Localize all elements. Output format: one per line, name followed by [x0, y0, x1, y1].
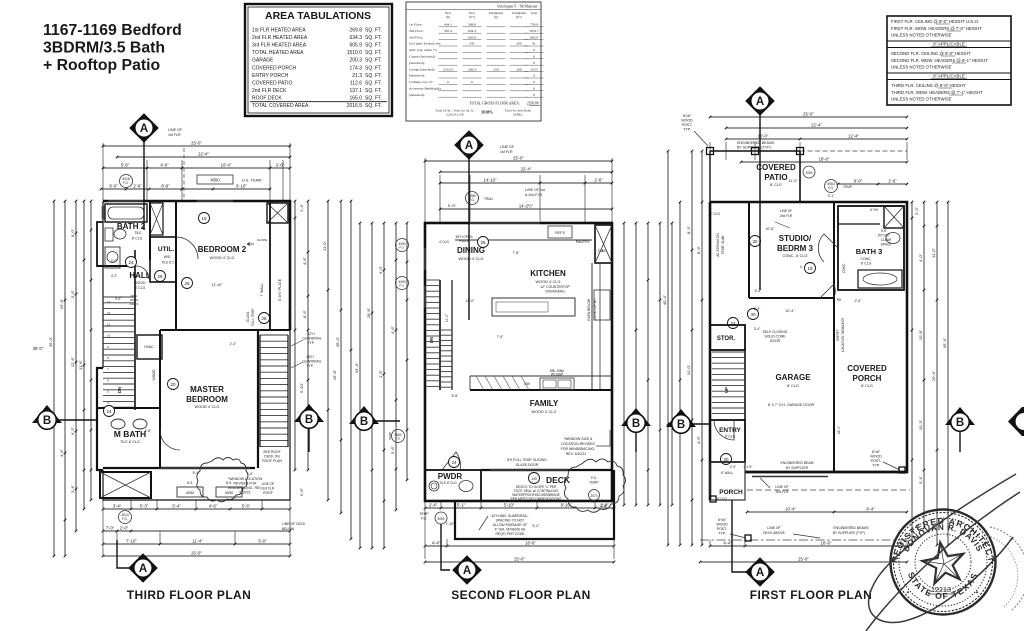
svg-text:SPACE: SPACE	[881, 243, 892, 247]
svg-text:TOTAL GROSS FLOOR AREA:: TOTAL GROSS FLOOR AREA:	[469, 101, 520, 105]
svg-text:22'-4": 22'-4"	[811, 123, 822, 128]
svg-text:4050: 4050	[186, 491, 194, 495]
svg-text:COVERED: COVERED	[756, 163, 796, 172]
plan1 bottom extension lines	[102, 500, 104, 509]
svg-text:6'-2″: 6'-2″	[70, 426, 75, 435]
plan2 dim row 14'-2	[440, 208, 612, 210]
plan1 right vertical dim chains	[294, 201, 296, 470]
svg-text:25'-0": 25'-0"	[803, 112, 814, 117]
svg-text:5'-4": 5'-4"	[193, 471, 201, 475]
svg-text:11'-2": 11'-2"	[788, 179, 798, 183]
svg-text:2'-4": 2'-4"	[429, 503, 438, 508]
plan2 pantry/ac closet top right	[595, 225, 612, 263]
svg-text:42"H: 42"H	[307, 332, 315, 336]
plan2 left FG circles	[396, 239, 409, 252]
svg-text:COOKTOP W/: COOKTOP W/	[593, 299, 597, 320]
svg-text:DECK ON: DECK ON	[264, 455, 280, 459]
svg-text:SQ. FT.: SQ. FT.	[365, 65, 382, 71]
svg-text:CONC.: CONC.	[861, 257, 872, 261]
plan2 left vertical dim chains	[359, 223, 361, 548]
plan1 bath2 wc	[105, 228, 113, 241]
svg-text:TEMP. SLAB: TEMP. SLAB	[721, 235, 725, 255]
svg-text:TILE 8' CLG: TILE 8' CLG	[439, 481, 457, 485]
svg-text:25'-0": 25'-0"	[514, 557, 525, 562]
svg-text:8'-6": 8'-6"	[161, 184, 170, 189]
svg-text:WOOD 4' CLG: WOOD 4' CLG	[210, 256, 235, 260]
svg-text:COVERED PATIO: COVERED PATIO	[252, 80, 292, 86]
svg-text:SELF CLOSING: SELF CLOSING	[763, 330, 788, 334]
svg-text:ENTRY: ENTRY	[719, 427, 741, 434]
svg-text:0: 0	[447, 80, 449, 84]
svg-text:REVISED FOR: REVISED FOR	[234, 482, 258, 486]
svg-text:5'-6": 5'-6"	[242, 504, 251, 509]
plan1 bath2 tub	[105, 204, 147, 222]
svg-text:6"x6": 6"x6"	[872, 450, 881, 454]
svg-text:✦: ✦	[898, 540, 903, 547]
svg-text:PWDR: PWDR	[438, 472, 463, 481]
svg-text:COVERED PORCH: COVERED PORCH	[252, 65, 297, 71]
svg-text:(detached):: (detached):	[409, 61, 425, 65]
svg-text:2'-4″: 2'-4″	[299, 203, 304, 212]
svg-text:1st Floor:: 1st Floor:	[409, 23, 423, 27]
svg-text:100: 100	[531, 477, 537, 481]
svg-text:2'-0": 2'-0"	[120, 526, 129, 531]
svg-text:11'-10": 11'-10"	[212, 283, 224, 287]
plan1 bedroom2 east wall	[269, 201, 271, 330]
svg-text:2nd FLR DECK: 2nd FLR DECK	[252, 88, 287, 94]
svg-text:35'-0″: 35'-0″	[335, 336, 340, 347]
svg-text:ALLOW PASSAGE OF: ALLOW PASSAGE OF	[493, 523, 527, 527]
plan2 keyed circles	[449, 457, 460, 468]
svg-text:& 2nd FLR: & 2nd FLR	[525, 193, 543, 197]
plan2 island counter	[492, 298, 575, 316]
svg-text:ROOF: ROOF	[263, 491, 273, 495]
svg-text:1510.0: 1510.0	[347, 50, 363, 56]
svg-text:LOCATION REVISED: LOCATION REVISED	[561, 442, 595, 446]
svg-text:(ft+): (ft+)	[469, 15, 475, 19]
svg-text:21.3: 21.3	[352, 73, 362, 79]
svg-text:ENTRY PORCH: ENTRY PORCH	[252, 73, 289, 79]
svg-text:F.G.: F.G.	[395, 437, 401, 441]
plan2 deck outline	[455, 470, 614, 539]
subchapter F tabulation table	[406, 2, 541, 121]
svg-text:LINE OF DECK: LINE OF DECK	[282, 522, 306, 526]
plan1 dim row 25'-0"	[103, 145, 290, 147]
svg-text:5'-8": 5'-8"	[452, 394, 460, 398]
svg-text:BY SUPPLIER (TYP.): BY SUPPLIER (TYP.)	[833, 531, 865, 535]
svg-text:2nd FLR: 2nd FLR	[262, 487, 275, 491]
svg-text:SQ. FT.: SQ. FT.	[365, 35, 382, 41]
section marker A plan2 bottom	[441, 524, 450, 570]
svg-text:REF'S: REF'S	[555, 231, 565, 235]
svg-text:WOOD 4' CLG: WOOD 4' CLG	[536, 280, 561, 284]
svg-text:+ Rooftop Patio: + Rooftop Patio	[43, 57, 161, 74]
plan3 studio/bath divider	[833, 202, 835, 298]
svg-text:LINE OF: LINE OF	[500, 145, 515, 149]
svg-text:(ft): (ft)	[446, 15, 450, 19]
svg-text:THIRD FLR. WDW. HEADERS @ 7'-1: THIRD FLR. WDW. HEADERS @ 7'-1" HEIGHT	[891, 90, 983, 95]
svg-text:Attic (clg. under 7'):: Attic (clg. under 7'):	[409, 48, 437, 52]
plan1 hall/stair west wall	[134, 250, 136, 410]
svg-text:5'-10": 5'-10"	[504, 503, 515, 508]
plan3 entry	[710, 420, 745, 462]
plan1 util closet walls	[150, 237, 176, 282]
plan3 dim row 22'-4"	[726, 127, 907, 129]
plan2 pwdr door swing	[442, 452, 460, 470]
svg-text:RAILS: RAILS	[130, 302, 139, 306]
svg-text:11'-0″: 11'-0″	[322, 240, 327, 250]
svg-text:2nd FLR: 2nd FLR	[780, 214, 793, 218]
svg-text:4'-6″: 4'-6″	[696, 435, 701, 444]
plan3 stor closet	[710, 325, 745, 350]
svg-text:FIRST FLOOR PLAN: FIRST FLOOR PLAN	[750, 588, 872, 602]
plan3 patio west edge	[709, 151, 711, 202]
plan2 stair west side	[439, 280, 441, 390]
ghost second stamp arc	[990, 527, 1024, 610]
svg-text:7'-0": 7'-0"	[106, 526, 115, 531]
svg-text:4' CLG: 4' CLG	[439, 240, 449, 244]
svg-text:IF APPLICABLE: IF APPLICABLE	[933, 42, 965, 47]
svg-text:TYP.: TYP.	[683, 128, 691, 132]
svg-text:8' CLG: 8' CLG	[861, 384, 873, 388]
svg-text:10'-0″: 10'-0″	[686, 364, 691, 375]
svg-text:24: 24	[106, 409, 112, 414]
plan3 bath3 closet	[884, 206, 904, 228]
svg-text:GARAGE: GARAGE	[252, 58, 274, 64]
svg-text:12: 12	[107, 311, 111, 315]
svg-text:0: 0	[533, 48, 535, 52]
svg-text:SLOPE: SLOPE	[257, 238, 267, 242]
svg-text:DN: DN	[429, 337, 434, 343]
svg-text:2'-6": 2'-6"	[600, 504, 608, 508]
svg-text:F.G.: F.G.	[421, 517, 427, 521]
svg-text:F.G.: F.G.	[399, 246, 405, 250]
svg-text:10'-6": 10'-6"	[766, 227, 775, 231]
svg-text:RAILS: RAILS	[459, 239, 468, 243]
svg-text:2'-6": 2'-6"	[133, 184, 142, 189]
svg-text:VERIFY: VERIFY	[836, 328, 840, 341]
plan3 garage front wall	[745, 471, 907, 474]
svg-text:6"x6": 6"x6"	[718, 518, 727, 522]
svg-text:8'H FULL TEMP. SLIDING: 8'H FULL TEMP. SLIDING	[507, 458, 547, 462]
svg-text:DW: DW	[524, 382, 530, 386]
svg-text:FAMILY: FAMILY	[530, 399, 559, 408]
svg-text:B: B	[956, 417, 964, 429]
plan1 line of 1st flr dashed leader	[183, 148, 185, 200]
svg-text:35'-0″: 35'-0″	[48, 336, 53, 347]
svg-text:*WINDOW SIZE &: *WINDOW SIZE &	[564, 437, 593, 441]
svg-text:SECOND FLR. WDW. HEADERS @ 8'-: SECOND FLR. WDW. HEADERS @ 8'-1" HEIGHT	[891, 58, 988, 63]
architect seal	[891, 510, 996, 615]
svg-text:TYP.: TYP.	[718, 532, 726, 536]
plan2 counter hatch diag	[469, 376, 471, 390]
svg-text:B: B	[43, 415, 51, 427]
svg-text:A: A	[139, 563, 147, 575]
plan3 bath3 sink	[886, 233, 900, 244]
svg-text:634.3: 634.3	[468, 29, 476, 33]
plan1 bedroom2 west wall	[175, 201, 177, 330]
svg-text:A: A	[756, 567, 764, 579]
svg-text:22'-4": 22'-4"	[198, 152, 209, 157]
svg-text:TYP.: TYP.	[308, 341, 315, 345]
svg-text:UNLESS NOTED OTHERWISE: UNLESS NOTED OTHERWISE	[891, 97, 952, 102]
svg-text:19: 19	[807, 266, 813, 271]
svg-text:241: 241	[469, 42, 475, 46]
svg-text:759.9: 759.9	[530, 23, 538, 27]
svg-text:LOCATION TANKLESS: LOCATION TANKLESS	[841, 317, 845, 352]
plan1 wall bath2/util east	[149, 201, 151, 260]
svg-text:3'-1": 3'-1"	[828, 194, 836, 198]
svg-text:24: 24	[451, 460, 457, 465]
area tabulations table	[245, 4, 392, 116]
svg-text:35'-0": 35'-0"	[33, 346, 44, 351]
svg-text:A: A	[463, 565, 471, 577]
svg-text:4'-0": 4'-0"	[160, 163, 169, 168]
svg-text:POST-: POST-	[717, 527, 729, 531]
plan1 keyed note circles	[126, 257, 137, 268]
plan1 bath2 vanity sink	[105, 247, 120, 268]
svg-text:2'-6": 2'-6"	[594, 178, 603, 183]
plan3 top extension lines	[709, 142, 711, 160]
svg-text:AREA TABULATIONS: AREA TABULATIONS	[265, 10, 371, 22]
plan1 bath2 door arc	[136, 266, 149, 279]
svg-text:FIRST FLR. WDW. HEADERS @ 7'-0: FIRST FLR. WDW. HEADERS @ 7'-0" HEIGHT	[891, 26, 982, 31]
svg-text:0: 0	[533, 74, 535, 78]
svg-text:7'-9": 7'-9"	[497, 335, 505, 339]
plan1 bedroom2 south wall	[160, 329, 290, 331]
svg-text:TRAN: TRAN	[484, 197, 493, 201]
plan3 bath3 tub	[858, 270, 902, 288]
svg-text:269.8: 269.8	[349, 28, 362, 34]
svg-text:200.3: 200.3	[468, 67, 476, 71]
svg-text:LINE OF: LINE OF	[775, 485, 788, 489]
svg-text:25'-0": 25'-0"	[798, 557, 809, 562]
svg-text:FULL TEMP.: FULL TEMP.	[251, 308, 255, 326]
svg-text:W/ DISP: W/ DISP	[551, 373, 563, 377]
svg-text:UTIL.: UTIL.	[158, 246, 174, 253]
svg-text:12'-6″: 12'-6″	[70, 356, 75, 367]
plan2 bottom dim rows	[425, 507, 614, 509]
svg-text:TOTAL HEATED AREA: TOTAL HEATED AREA	[252, 50, 304, 56]
svg-text:25'-6″: 25'-6″	[59, 298, 64, 309]
plan2 dim row 25'-0"	[425, 160, 612, 162]
svg-text:112.6: 112.6	[350, 80, 362, 86]
svg-text:Total: Total	[531, 11, 538, 15]
svg-text:Carport (attached):: Carport (attached):	[409, 55, 436, 59]
svg-text:✦: ✦	[975, 590, 979, 596]
svg-text:5'-2": 5'-2"	[532, 524, 540, 528]
svg-text:FIRST FLR. CEILING @ 8'-0" HEI: FIRST FLR. CEILING @ 8'-0" HEIGHT U.N.O.	[891, 19, 979, 24]
svg-text:269.8: 269.8	[468, 23, 476, 27]
svg-text:8'-4": 8'-4"	[866, 507, 875, 512]
svg-text:POST-: POST-	[871, 459, 883, 463]
svg-text:0: 0	[533, 80, 535, 84]
svg-text:24: 24	[128, 260, 134, 265]
svg-text:*WINDOW LOCATION: *WINDOW LOCATION	[228, 477, 263, 481]
svg-text:THIRD FLOOR PLAN: THIRD FLOOR PLAN	[127, 588, 251, 602]
svg-text:434.1: 434.1	[444, 23, 452, 27]
plan2 dim row 22'-4"	[440, 171, 612, 173]
plan3 porch strip	[710, 462, 745, 500]
plan1 4014 FG circle	[119, 511, 132, 524]
svg-text:PORCH: PORCH	[719, 489, 743, 496]
svg-text:10'-4": 10'-4"	[785, 507, 796, 512]
plan3 keyed circles	[750, 236, 761, 247]
svg-text:4'-6″: 4'-6″	[59, 448, 64, 457]
plan3 right vertical dim chains	[911, 202, 913, 545]
svg-text:22'-4": 22'-4"	[521, 167, 532, 172]
svg-text:UP: UP	[724, 387, 729, 393]
svg-text:13: 13	[107, 300, 111, 304]
svg-text:2069: 2069	[805, 171, 812, 175]
plan2 kitchen east counter	[591, 263, 593, 390]
section marker A plan1 bottom	[117, 540, 133, 568]
plan3 dim row 10-12	[726, 138, 907, 140]
svg-text:0: 0	[533, 61, 535, 65]
plan1 stair treads	[103, 296, 135, 298]
plan1 top wall window bands	[197, 200, 233, 203]
plan3 bottom dim rows	[710, 545, 907, 547]
plan1 right roof-deck rail hatch	[260, 334, 288, 336]
svg-text:2nd FLR HEATED AREA: 2nd FLR HEATED AREA	[252, 35, 308, 41]
svg-text:A: A	[756, 96, 764, 108]
section marker B plan3 left	[666, 409, 696, 427]
svg-text:TYP.: TYP.	[307, 364, 314, 368]
plan3 covered patio front edge with posts	[710, 150, 800, 152]
svg-text:42"H MIN. GUARDRAIL-: 42"H MIN. GUARDRAIL-	[491, 514, 528, 518]
svg-text:WOOD: WOOD	[152, 369, 156, 380]
plan2 dim row 14'-10"	[440, 182, 612, 184]
svg-text:2'-1½": 2'-1½"	[743, 465, 752, 469]
svg-text:11'-0″: 11'-0″	[445, 313, 449, 322]
svg-text:TOTAL COVERED AREA: TOTAL COVERED AREA	[252, 103, 309, 109]
svg-text:(FAR):: (FAR):	[514, 112, 523, 116]
svg-text:W/D: W/D	[164, 255, 171, 259]
ceiling heights note box	[887, 16, 1011, 105]
svg-text:0: 0	[533, 93, 535, 97]
section marker B plan2 left	[349, 406, 379, 424]
svg-text:3BDRM/3.5 Bath: 3BDRM/3.5 Bath	[43, 40, 165, 57]
plan2 family south wall with sliding door	[481, 469, 612, 471]
svg-text:16'-8″: 16'-8″	[332, 369, 337, 380]
svg-text:0: 0	[533, 55, 535, 59]
svg-text:28'-8″: 28'-8″	[366, 307, 371, 318]
svg-text:SQ. FT.: SQ. FT.	[365, 28, 382, 34]
svg-text:BEDRM 3: BEDRM 3	[777, 244, 814, 253]
plan2 lower counter with sink	[425, 329, 560, 331]
plan3 2069 circle	[803, 166, 815, 178]
svg-text:3rd Floor:: 3rd Floor:	[409, 35, 423, 39]
svg-text:TEMP: TEMP	[388, 432, 392, 440]
svg-text:SQ. FT.: SQ. FT.	[365, 103, 382, 109]
svg-text:11'-6″: 11'-6″	[78, 359, 83, 369]
svg-text:SQ. FT.: SQ. FT.	[365, 80, 382, 86]
svg-text:ENGINEERED BEAMS: ENGINEERED BEAMS	[833, 526, 869, 530]
svg-text:6"x6": 6"x6"	[683, 114, 692, 118]
plan2 deck revision cloud	[564, 459, 625, 512]
svg-text:30: 30	[750, 312, 756, 317]
plan3 5063 FG TEMP circle	[825, 180, 838, 193]
svg-text:STOR.: STOR.	[717, 336, 736, 342]
plan1 dim row lower	[101, 188, 270, 190]
plan3 studio south wall	[749, 297, 834, 299]
svg-text:2nd FLR: 2nd FLR	[775, 490, 789, 494]
plan1 4050 HS TEMP window tag	[197, 175, 233, 184]
svg-text:8' CLG: 8' CLG	[132, 237, 143, 241]
svg-text:Gr'd patio (b/deck abv:: Gr'd patio (b/deck abv:	[409, 42, 441, 46]
section marker A plan2 top	[468, 154, 470, 320]
svg-text:0: 0	[471, 80, 473, 84]
svg-text:4'-0″: 4'-0″	[918, 253, 923, 262]
svg-text:WOOD: WOOD	[716, 523, 728, 527]
svg-text:8'-3″: 8'-3″	[686, 225, 691, 234]
svg-text:POST-: POST-	[682, 123, 694, 127]
svg-text:DN: DN	[117, 387, 122, 393]
seal star facet lines	[940, 541, 944, 564]
plan3 dim 8'-0 2'-6	[838, 183, 907, 185]
plan3 bath3 box	[838, 206, 904, 290]
svg-text:34'-4″: 34'-4″	[354, 362, 359, 373]
svg-text:30: 30	[752, 239, 758, 244]
plan3 deck above dash line	[700, 539, 915, 541]
plan1 dim row segments	[103, 167, 290, 169]
svg-text:8' X 7' O.H. GARAGE DOOR: 8' X 7' O.H. GARAGE DOOR	[768, 403, 815, 407]
svg-text:B: B	[677, 419, 685, 431]
svg-text:5'-1": 5'-1"	[457, 503, 466, 508]
svg-text:605.9: 605.9	[349, 43, 362, 49]
svg-text:14'-10": 14'-10"	[484, 178, 498, 183]
svg-text:LANDING: LANDING	[288, 309, 292, 324]
svg-text:8' CLG: 8' CLG	[770, 183, 782, 187]
svg-text:2'-4": 2'-4"	[230, 342, 238, 346]
svg-text:F.G.: F.G.	[591, 476, 597, 480]
svg-text:8' CLG: 8' CLG	[787, 384, 799, 388]
svg-text:H.S.: H.S.	[226, 481, 233, 485]
svg-text:GUARDRAIL: GUARDRAIL	[302, 360, 321, 364]
svg-text:2016.5: 2016.5	[347, 103, 363, 109]
svg-text:11'-4": 11'-4"	[192, 539, 203, 544]
svg-text:8'-6″: 8'-6″	[302, 309, 307, 318]
svg-text:DECK: DECK	[546, 475, 571, 485]
svg-text:BATH 3: BATH 3	[856, 247, 883, 256]
svg-text:4' CLG: 4' CLG	[135, 286, 146, 290]
svg-text:SQ. FT.: SQ. FT.	[365, 73, 382, 79]
svg-text:PER MFR'S RECOMMENDATIONS: PER MFR'S RECOMMENDATIONS	[511, 497, 562, 501]
clipped section marker at right edge	[1008, 407, 1024, 436]
svg-text:BEDROOM 2: BEDROOM 2	[198, 245, 247, 254]
svg-text:GLASS DOOR: GLASS DOOR	[516, 463, 539, 467]
svg-text:BELOW: BELOW	[282, 527, 295, 531]
svg-text:TEMP.: TEMP.	[843, 185, 852, 189]
svg-text:200.3: 200.3	[349, 58, 362, 64]
svg-text:36"H: 36"H	[306, 355, 314, 359]
svg-text:397.4: 397.4	[444, 29, 452, 33]
svg-text:1'-5″: 1'-5″	[378, 369, 383, 378]
svg-text:KITCHEN: KITCHEN	[530, 269, 566, 278]
svg-text:3'-4″: 3'-4″	[70, 484, 75, 493]
plan2 left wall window bands	[424, 248, 427, 270]
svg-text:4'-4": 4'-4"	[723, 541, 732, 546]
svg-text:605.9: 605.9	[468, 35, 476, 39]
svg-text:A: A	[140, 123, 148, 135]
svg-text:WOOD: WOOD	[681, 119, 693, 123]
svg-text:(ft): (ft)	[494, 15, 498, 19]
svg-text:B: B	[632, 418, 640, 430]
svg-text:SQ. FT.: SQ. FT.	[365, 50, 382, 56]
svg-text:F.G.: F.G.	[469, 198, 475, 202]
svg-text:5'-0": 5'-0"	[258, 539, 267, 544]
svg-text:18'-0″: 18'-0″	[837, 425, 841, 434]
